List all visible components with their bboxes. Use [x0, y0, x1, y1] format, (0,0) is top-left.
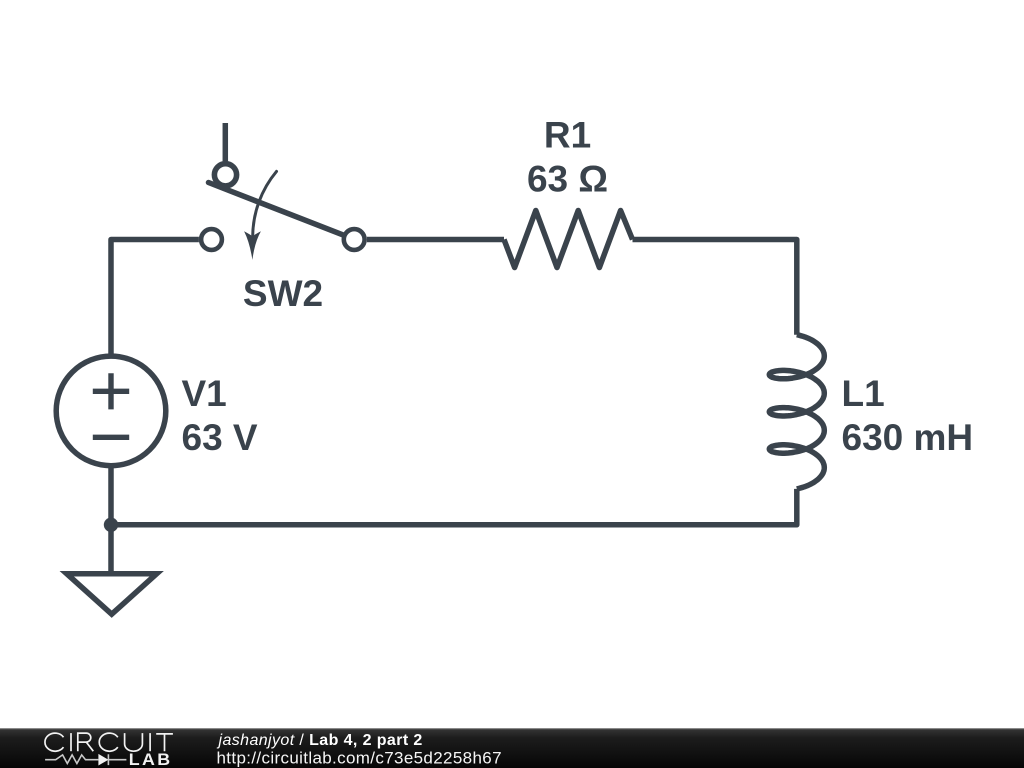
ground symbol triangle	[67, 574, 157, 615]
logo letter U	[125, 733, 143, 751]
logo mark diode triangle	[98, 754, 108, 766]
logo mark wire+resistor zigzag	[45, 755, 98, 764]
switch SW2 actuation arc arrow	[253, 171, 277, 236]
wire: SW2 top throw terminal stub	[223, 123, 229, 161]
svg-text:R1: R1	[544, 115, 591, 156]
logo letter C	[45, 733, 64, 751]
junction node dot at V1 negative / ground / bottom net	[104, 518, 118, 532]
V1 plus sign	[93, 373, 129, 409]
svg-text:LAB: LAB	[129, 750, 173, 768]
footer bar top highlight line	[0, 728, 1024, 729]
voltage source V1 circle	[56, 356, 166, 466]
svg-text:63 Ω: 63 Ω	[527, 158, 608, 199]
logo letter I	[149, 733, 151, 751]
inductor L1 coil	[769, 335, 824, 489]
logo letter T	[156, 734, 173, 751]
svg-text:SW2: SW2	[243, 273, 323, 314]
wire: resistor R1 right lead to top-right corner down to inductor L1 top	[633, 240, 797, 335]
svg-text:V1: V1	[182, 373, 227, 414]
svg-text:L1: L1	[842, 373, 885, 414]
wire: V1 negative terminal down through node to ground	[108, 468, 114, 572]
logo letter C	[99, 733, 118, 751]
logo letter I	[70, 733, 72, 751]
footer bar	[0, 728, 1024, 768]
svg-text:63 V: 63 V	[182, 417, 258, 458]
CircuitLab logo wordmark CIRCUIT	[45, 733, 173, 751]
resistor R1	[504, 211, 633, 268]
svg-text:jashanjyot / Lab 4, 2 part 2: jashanjyot / Lab 4, 2 part 2	[217, 732, 423, 749]
wire: V1 positive terminal up left vertical to top-left corner, across to SW2 left contact	[111, 240, 199, 355]
switch SW2 lever (blade)	[209, 183, 343, 235]
switch SW2 arrowhead	[244, 231, 261, 260]
wire: inductor L1 bottom to bottom-right corner, bottom net back to junction node	[111, 489, 797, 525]
svg-text:630 mH: 630 mH	[842, 417, 974, 458]
switch SW2 right contact circle	[344, 229, 365, 250]
svg-text:http://circuitlab.com/c73e5d22: http://circuitlab.com/c73e5d2258h67	[217, 749, 502, 768]
logo resistor-diode mark	[45, 754, 126, 765]
logo letter R	[78, 733, 94, 751]
switch SW2 left contact circle	[201, 229, 222, 250]
switch SW2 top contact circle	[214, 164, 236, 186]
wire: SW2 right contact to resistor R1 left lead	[367, 237, 504, 243]
V1 minus sign	[93, 435, 129, 440]
logo mark diode cathode bar and wire	[108, 754, 126, 765]
